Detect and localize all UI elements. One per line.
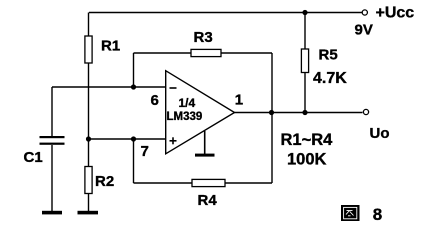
svg-text:C1: C1 <box>24 149 43 166</box>
svg-text:R2: R2 <box>95 173 114 190</box>
svg-text:7: 7 <box>141 143 149 160</box>
svg-text:6: 6 <box>151 92 159 109</box>
svg-text:+Ucc: +Ucc <box>376 5 415 22</box>
svg-text:R4: R4 <box>198 192 218 209</box>
svg-text:R1~R4: R1~R4 <box>281 131 334 149</box>
svg-text:8: 8 <box>373 205 382 224</box>
svg-text:9V: 9V <box>355 22 373 39</box>
svg-text:100K: 100K <box>287 151 327 169</box>
svg-text:4.7K: 4.7K <box>313 70 347 87</box>
svg-text:Uo: Uo <box>370 125 390 142</box>
svg-text:LM339: LM339 <box>167 111 203 123</box>
svg-text:1/4: 1/4 <box>179 96 196 110</box>
svg-text:1: 1 <box>235 92 243 109</box>
svg-text:R3: R3 <box>194 29 213 46</box>
svg-text:R1: R1 <box>101 38 120 55</box>
svg-text:R5: R5 <box>319 47 338 64</box>
